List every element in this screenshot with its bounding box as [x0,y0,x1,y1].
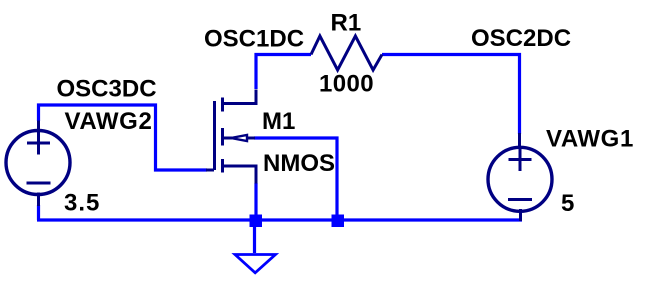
svg-text:OSC1DC: OSC1DC [204,26,304,53]
svg-text:1000: 1000 [319,71,374,98]
svg-text:NMOS: NMOS [263,150,335,177]
svg-text:VAWG2: VAWG2 [65,108,153,135]
svg-text:3.5: 3.5 [64,190,100,217]
svg-text:5: 5 [561,190,574,217]
svg-text:M1: M1 [262,108,295,135]
svg-text:VAWG1: VAWG1 [546,126,634,153]
svg-text:OSC3DC: OSC3DC [57,76,157,103]
svg-text:R1: R1 [331,10,362,37]
svg-text:OSC2DC: OSC2DC [471,25,571,52]
